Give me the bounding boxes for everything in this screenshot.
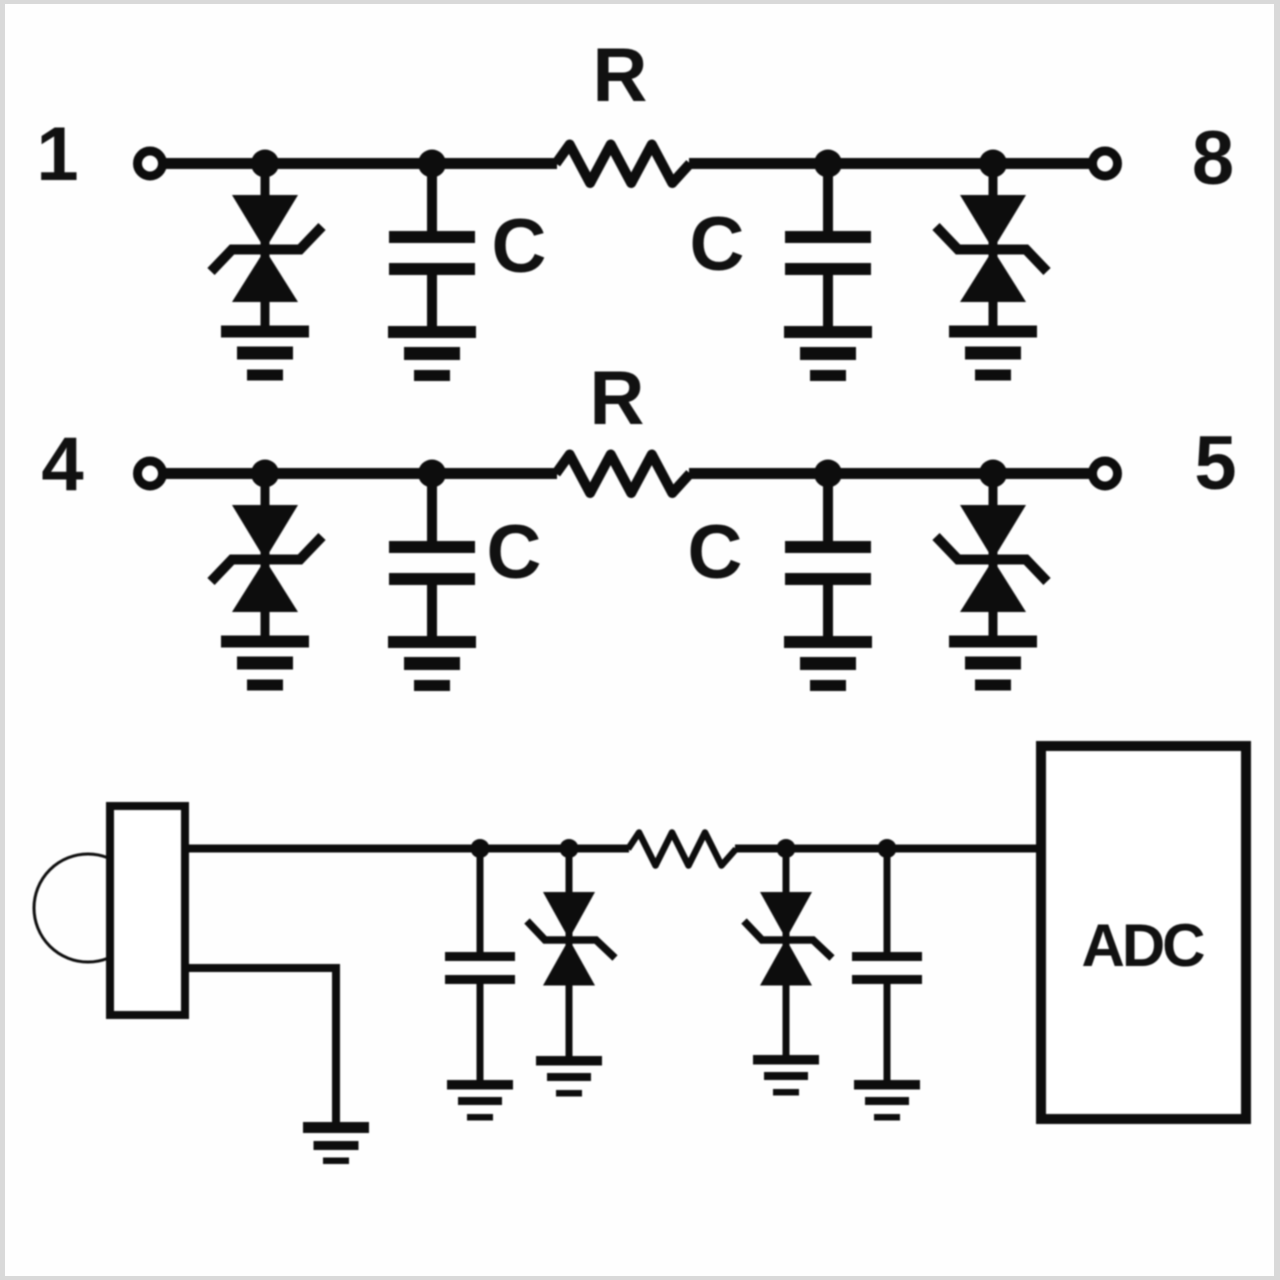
capacitor C1 bottom plate bbox=[389, 263, 475, 275]
resistor (bottom) zigzag body bbox=[628, 833, 736, 866]
ground (TVS D5) bbox=[536, 1056, 602, 1097]
TVS diode D5 zener bar bbox=[527, 921, 615, 958]
junction node B4 bbox=[979, 460, 1007, 488]
TVS diode D4 top triangle bbox=[960, 505, 1026, 560]
capacitor C2 bottom plate bbox=[785, 263, 871, 275]
TVS diode D5 bottom triangle bbox=[543, 939, 595, 986]
TVS diode D5 vertical stem bbox=[566, 849, 573, 1057]
connector J1 body bbox=[110, 806, 185, 1015]
ground (capacitor C5) bbox=[447, 1080, 513, 1121]
wire pin4 to resistor R (middle row) bbox=[161, 468, 557, 479]
ground (capacitor C1) bbox=[388, 326, 476, 381]
junction node N3 bbox=[777, 839, 796, 858]
capacitor C2 top lead bbox=[823, 164, 833, 233]
capacitor C3 bottom plate bbox=[389, 573, 475, 585]
resistor R (middle row) zigzag body bbox=[556, 455, 690, 494]
junction node A3 bbox=[814, 150, 842, 178]
ground (capacitor C6) bbox=[854, 1080, 920, 1121]
svg-text:4: 4 bbox=[41, 422, 83, 507]
TVS diode D2 top triangle bbox=[960, 195, 1026, 250]
wire resistor R to pin5 (middle row) bbox=[689, 468, 1094, 479]
wire J1 sleeve to ground bbox=[189, 968, 336, 1123]
TVS diode D3 bottom triangle bbox=[232, 560, 298, 613]
svg-text:1: 1 bbox=[36, 112, 78, 197]
resistor R (top row) zigzag body bbox=[556, 145, 690, 184]
junction node N2 bbox=[560, 839, 579, 858]
ground (TVS D3) bbox=[221, 636, 309, 691]
junction node B1 bbox=[251, 460, 279, 488]
capacitor C1 top plate bbox=[389, 231, 475, 243]
svg-text:8: 8 bbox=[1192, 116, 1234, 201]
ground (J1 sleeve) bbox=[303, 1122, 369, 1164]
capacitor C4 bottom lead bbox=[823, 585, 833, 637]
TVS diode D1 top triangle bbox=[232, 195, 298, 250]
TVS diode D6 vertical stem bbox=[783, 849, 790, 1057]
svg-text:R: R bbox=[590, 356, 645, 441]
junction node N1 bbox=[471, 839, 490, 858]
capacitor C5 bottom plate bbox=[445, 975, 515, 984]
capacitor C1 bottom lead bbox=[427, 275, 437, 327]
wire resistor R to pin8 (top row) bbox=[689, 158, 1094, 169]
ground (TVS D2) bbox=[949, 326, 1037, 381]
capacitor C3 bottom lead bbox=[427, 585, 437, 637]
TVS diode D6 bottom triangle bbox=[760, 939, 812, 986]
TVS diode D1 bottom triangle bbox=[232, 250, 298, 303]
TVS diode D1 vertical stem bbox=[261, 164, 270, 327]
frame border bottom bbox=[0, 1276, 1280, 1280]
TVS diode D3 top triangle bbox=[232, 505, 298, 560]
ADC block U1 bbox=[1041, 746, 1246, 1119]
TVS diode D6 zener bar bbox=[744, 921, 832, 958]
wire J1 tip to resistor (signal line) bbox=[189, 845, 629, 853]
capacitor C5 top lead bbox=[477, 849, 484, 954]
capacitor C1 top lead bbox=[427, 164, 437, 233]
TVS diode D4 bottom triangle bbox=[960, 560, 1026, 613]
capacitor C6 top plate bbox=[852, 952, 922, 961]
capacitor C6 bottom lead bbox=[884, 984, 891, 1080]
TVS diode D5 top triangle bbox=[543, 892, 595, 939]
ground (TVS D6) bbox=[753, 1055, 819, 1096]
connector J1 barrel (audio jack) bbox=[34, 854, 142, 962]
frame border right bbox=[1274, 0, 1280, 1280]
frame border left bbox=[0, 0, 5, 1280]
TVS diode D1 zener bar bbox=[211, 227, 322, 272]
junction node A4 bbox=[979, 150, 1007, 178]
capacitor C5 top plate bbox=[445, 952, 515, 961]
capacitor C2 bottom lead bbox=[823, 275, 833, 327]
open terminal pin 5 bbox=[1093, 461, 1118, 486]
wire resistor to ADC input bbox=[735, 845, 1041, 853]
ground (TVS D4) bbox=[949, 636, 1037, 691]
junction node N4 bbox=[878, 839, 897, 858]
svg-text:C: C bbox=[487, 510, 542, 595]
capacitor C4 bottom plate bbox=[785, 573, 871, 585]
svg-text:C: C bbox=[688, 510, 743, 595]
svg-text:C: C bbox=[492, 204, 547, 289]
wire pin1 to resistor R (top row) bbox=[161, 158, 557, 169]
capacitor C4 top plate bbox=[785, 541, 871, 553]
TVS diode D2 bottom triangle bbox=[960, 250, 1026, 303]
ground (TVS D1) bbox=[221, 326, 309, 381]
open terminal pin 8 bbox=[1093, 151, 1118, 176]
capacitor C4 top lead bbox=[823, 474, 833, 543]
TVS diode D3 zener bar bbox=[211, 537, 322, 582]
TVS diode D6 top triangle bbox=[760, 892, 812, 939]
capacitor C3 top plate bbox=[389, 541, 475, 553]
junction node B2 bbox=[418, 460, 446, 488]
capacitor C6 top lead bbox=[884, 849, 891, 954]
ground (capacitor C4) bbox=[784, 636, 872, 691]
TVS diode D2 zener bar bbox=[936, 227, 1047, 272]
junction node A1 bbox=[251, 150, 279, 178]
capacitor C2 top plate bbox=[785, 231, 871, 243]
junction node A2 bbox=[418, 150, 446, 178]
junction node B3 bbox=[814, 460, 842, 488]
svg-text:5: 5 bbox=[1194, 421, 1236, 506]
ground (capacitor C2) bbox=[784, 326, 872, 381]
capacitor C3 top lead bbox=[427, 474, 437, 543]
open terminal pin 4 bbox=[138, 461, 163, 486]
svg-text:R: R bbox=[593, 33, 648, 118]
TVS diode D2 vertical stem bbox=[989, 164, 998, 327]
svg-text:ADC: ADC bbox=[1082, 912, 1205, 979]
TVS diode D3 vertical stem bbox=[261, 474, 270, 637]
svg-text:C: C bbox=[690, 202, 745, 287]
TVS diode D4 vertical stem bbox=[989, 474, 998, 637]
ground (capacitor C3) bbox=[388, 636, 476, 691]
capacitor C5 bottom lead bbox=[477, 984, 484, 1080]
open terminal pin 1 bbox=[138, 151, 163, 176]
capacitor C6 bottom plate bbox=[852, 975, 922, 984]
TVS diode D4 zener bar bbox=[936, 537, 1047, 582]
frame border top bbox=[0, 0, 1280, 4]
